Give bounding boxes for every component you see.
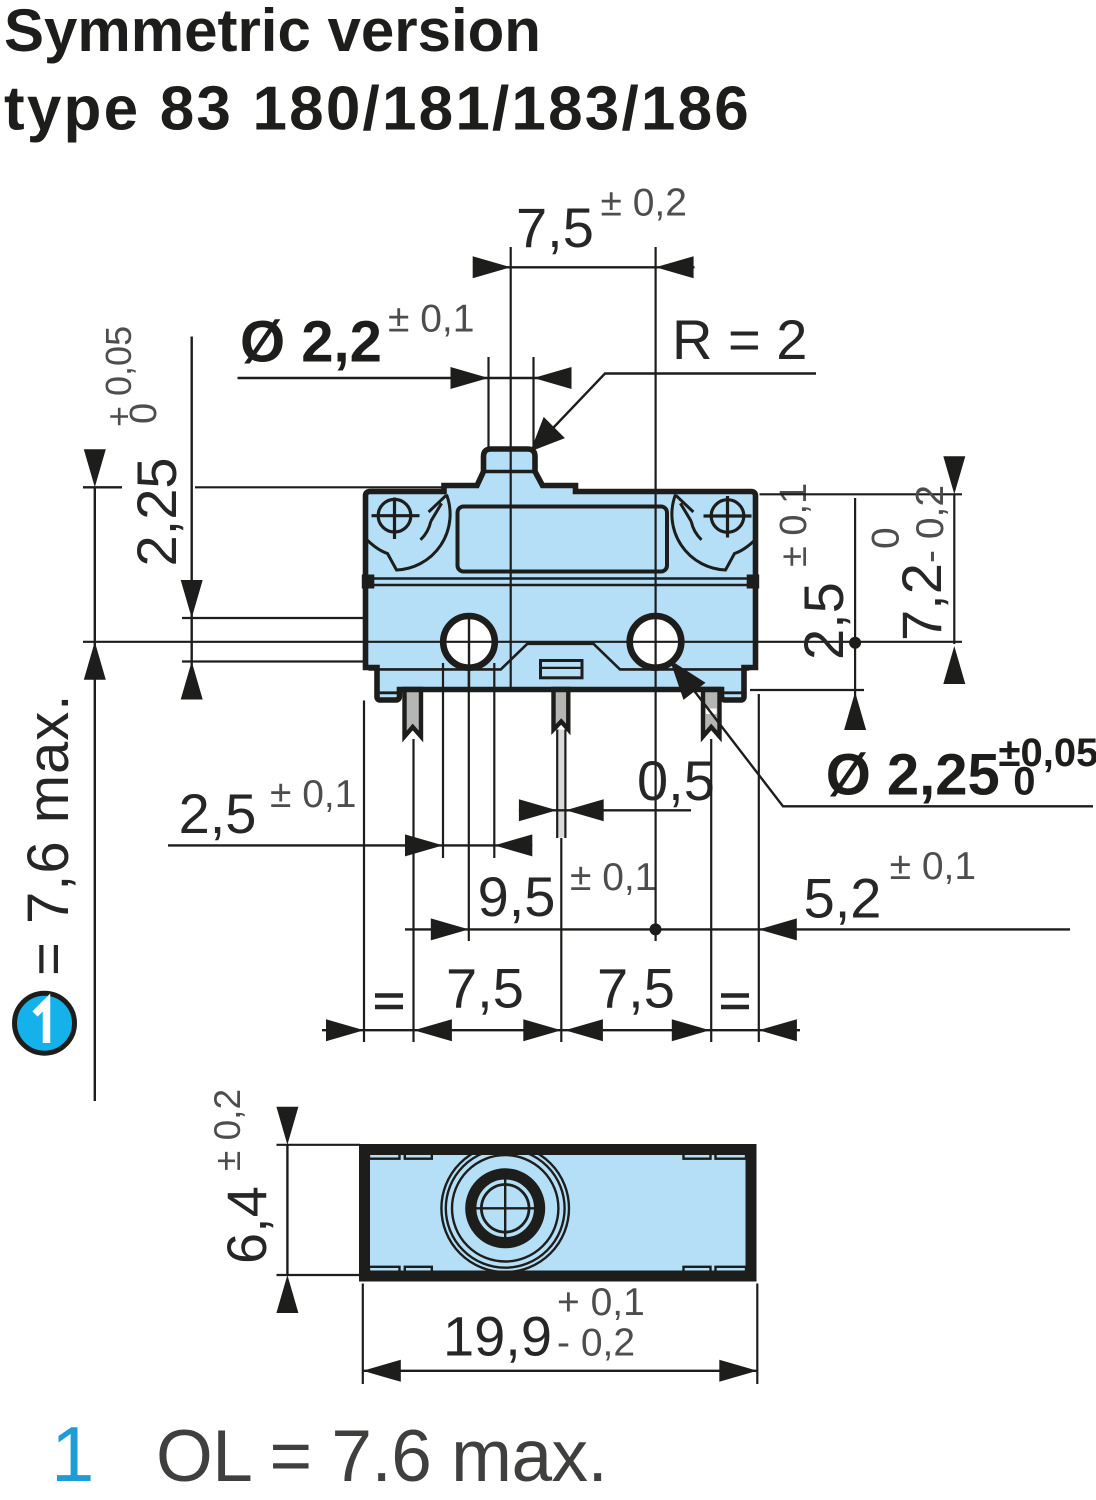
label plate rectangle [458,507,668,572]
screw hole right [704,496,752,538]
hole centre line horizontal (long) [83,641,962,643]
terminal right [703,689,720,737]
dimension diameter 2,2 [238,298,572,450]
housing split lines [368,579,753,586]
svg-text:- 0,2: - 0,2 [557,1322,635,1365]
leader diameter 2,25 [670,660,1096,808]
split line end tab right [747,575,760,589]
mounting hole right [630,616,682,668]
small rectangle detail [541,661,583,678]
plunger cap divider line [484,470,536,473]
svg-text:type 83 180/181/183/186: type 83 180/181/183/186 [4,75,751,144]
svg-text:0: 0 [865,527,908,549]
svg-text:R = 2: R = 2 [672,308,807,371]
svg-text:± 0,1: ± 0,1 [270,773,356,816]
screw hole left [372,498,420,540]
dimension 9,5 and 5,2 [405,667,1070,1042]
hole vertical centre line left [468,614,470,690]
svg-text:2,25: 2,25 [125,458,188,567]
svg-text:+ 0,1: + 0,1 [557,1281,645,1324]
dimension 6,4 [207,1089,360,1313]
svg-text:Ø 2,2: Ø 2,2 [240,310,382,375]
dimension 2,5 bottom left [168,663,532,858]
svg-text:± 0,2: ± 0,2 [207,1089,248,1171]
dimension 2,25 hole (left, rotated) [98,326,444,700]
dimension 7,6 max (leftmost) [16,449,122,1101]
right edge notch [749,670,755,688]
svg-text:2,5: 2,5 [792,582,855,660]
leader R = 2 [530,308,816,452]
svg-text:9,5: 9,5 [478,865,556,928]
foot step lines [377,691,744,694]
bottom view border [365,1150,752,1277]
svg-text:1: 1 [51,1410,94,1498]
svg-text:0: 0 [1013,759,1035,803]
svg-text:Ø 2,25: Ø 2,25 [826,742,1000,807]
svg-text:± 0,1: ± 0,1 [388,298,474,341]
svg-text:= 7,6 max.: = 7,6 max. [16,694,81,976]
svg-text:0: 0 [123,403,165,424]
corner notches [369,1149,746,1277]
dimension 2,5 right (rotated) [750,483,866,730]
dimension 19,9 [363,1281,758,1384]
dimension 0,5 terminal [519,749,715,821]
svg-text:0,5: 0,5 [637,749,715,812]
switch body outline stroke [366,449,756,700]
svg-text:2,5: 2,5 [179,782,257,845]
mounting hole left [443,616,495,668]
cam contour left [367,495,451,571]
svg-text:7,2: 7,2 [890,563,953,641]
footnote: 1 OL = 7.6 max. [51,1410,607,1498]
callout marker 1 (circled) [15,993,75,1053]
title [4,0,751,144]
concentric plunger circles (bottom view) [441,1145,569,1273]
svg-text:± 0,1: ± 0,1 [570,856,656,899]
svg-text:± 0,1: ± 0,1 [890,845,976,888]
dimension 7,2 right (rotated) [760,456,966,684]
svg-text:6,4: 6,4 [215,1186,278,1264]
svg-text:- 0,2: - 0,2 [909,485,952,563]
bottom inner contour with trapezoid boss [369,644,753,670]
svg-text:7,5: 7,5 [446,957,524,1020]
svg-text:7,5: 7,5 [516,196,594,259]
svg-text:5,2: 5,2 [804,866,882,929]
terminal left [405,689,422,737]
split line end tab left [362,575,375,589]
bottom view body [365,1145,752,1277]
svg-text:± 0,2: ± 0,2 [601,182,687,225]
svg-text:7,5: 7,5 [597,957,675,1020]
terminal middle [554,689,569,838]
dimension 7,5 top [473,182,695,942]
switch body (front view) [366,449,756,700]
svg-text:19,9: 19,9 [443,1304,552,1367]
cam contour right [672,495,756,571]
dimension 7,5 + 7,5 bottom [322,701,800,1043]
svg-text:OL = 7.6 max.: OL = 7.6 max. [156,1416,607,1497]
svg-text:Symmetric version: Symmetric version [4,0,541,64]
